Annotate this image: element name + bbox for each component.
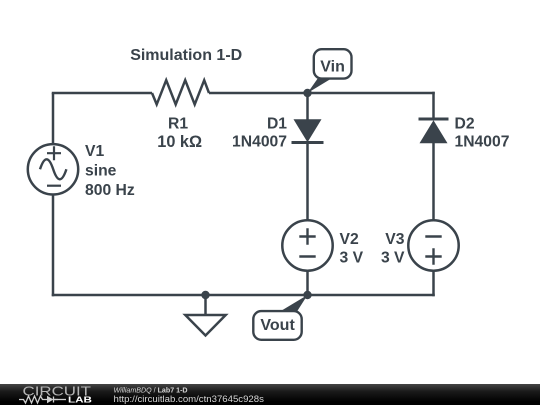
svg-text:Simulation 1-D: Simulation 1-D — [130, 47, 242, 64]
svg-text:Vout: Vout — [260, 317, 295, 334]
svg-text:V1: V1 — [85, 143, 104, 160]
V1 minus sign — [47, 185, 61, 187]
V1 plus sign — [47, 146, 61, 160]
svg-text:http://circuitlab.com/ctn37645: http://circuitlab.com/ctn37645c928s — [114, 394, 265, 405]
wire top-left vertical (V1 top to top rail) — [52, 93, 55, 144]
voltage source V1 circle — [28, 144, 78, 194]
wire D2 to V3 — [432, 143, 435, 222]
svg-text:V3: V3 — [385, 231, 404, 248]
svg-text:sine: sine — [85, 163, 117, 180]
Vout flag pointer — [280, 295, 308, 312]
logo resistor-diode squiggle — [19, 396, 58, 403]
diode D2 triangle — [420, 120, 448, 143]
ground triangle — [185, 315, 225, 336]
diode D2 cathode bar — [419, 118, 449, 121]
node ground junction dot — [201, 291, 209, 299]
svg-text:D2: D2 — [455, 116, 475, 133]
svg-text:D1: D1 — [267, 116, 287, 133]
Vout flag box — [253, 311, 301, 340]
svg-text:10 kΩ: 10 kΩ — [157, 133, 202, 151]
node Vout junction dot — [303, 291, 311, 299]
V3 minus sign — [425, 235, 441, 237]
wire Vin node to D1 — [306, 93, 309, 121]
svg-text:R1: R1 — [168, 116, 188, 133]
V2 plus sign — [299, 228, 315, 244]
resistor R1 — [152, 80, 209, 104]
diode D1 cathode bar — [292, 141, 324, 144]
wire D1 to V2 — [306, 142, 309, 221]
wire V3 to bottom rail — [432, 270, 435, 296]
footer bar — [0, 384, 540, 405]
svg-text:1N4007: 1N4007 — [232, 134, 287, 151]
wire left rail bottom vertical — [52, 195, 55, 297]
svg-text:1N4007: 1N4007 — [455, 134, 510, 151]
wire top rail right segment — [209, 92, 435, 95]
Vin flag pointer — [308, 79, 332, 93]
svg-text:V2: V2 — [340, 231, 359, 248]
voltage source V2 circle — [282, 220, 332, 270]
wire V2 to bottom rail — [306, 270, 309, 295]
svg-text:800 Hz: 800 Hz — [85, 182, 135, 199]
diode D1 triangle — [294, 119, 322, 142]
logo wire to LAB — [54, 399, 67, 401]
wire top rail left segment — [52, 92, 152, 95]
ground stub — [204, 295, 207, 315]
node Vin junction dot — [303, 89, 311, 97]
svg-text:LAB: LAB — [68, 395, 92, 405]
Vin flag box — [314, 49, 352, 78]
V3 plus sign — [425, 248, 441, 264]
svg-text:3 V: 3 V — [340, 249, 364, 266]
voltage source V3 circle — [408, 220, 458, 270]
wire bottom rail — [52, 294, 435, 297]
svg-text:3 V: 3 V — [381, 249, 405, 266]
V1 sine wave — [40, 159, 66, 179]
V2 minus sign — [299, 255, 315, 257]
svg-text:Vin: Vin — [320, 59, 345, 76]
logo diode triangle — [47, 396, 54, 404]
wire right rail top vertical — [432, 92, 435, 119]
